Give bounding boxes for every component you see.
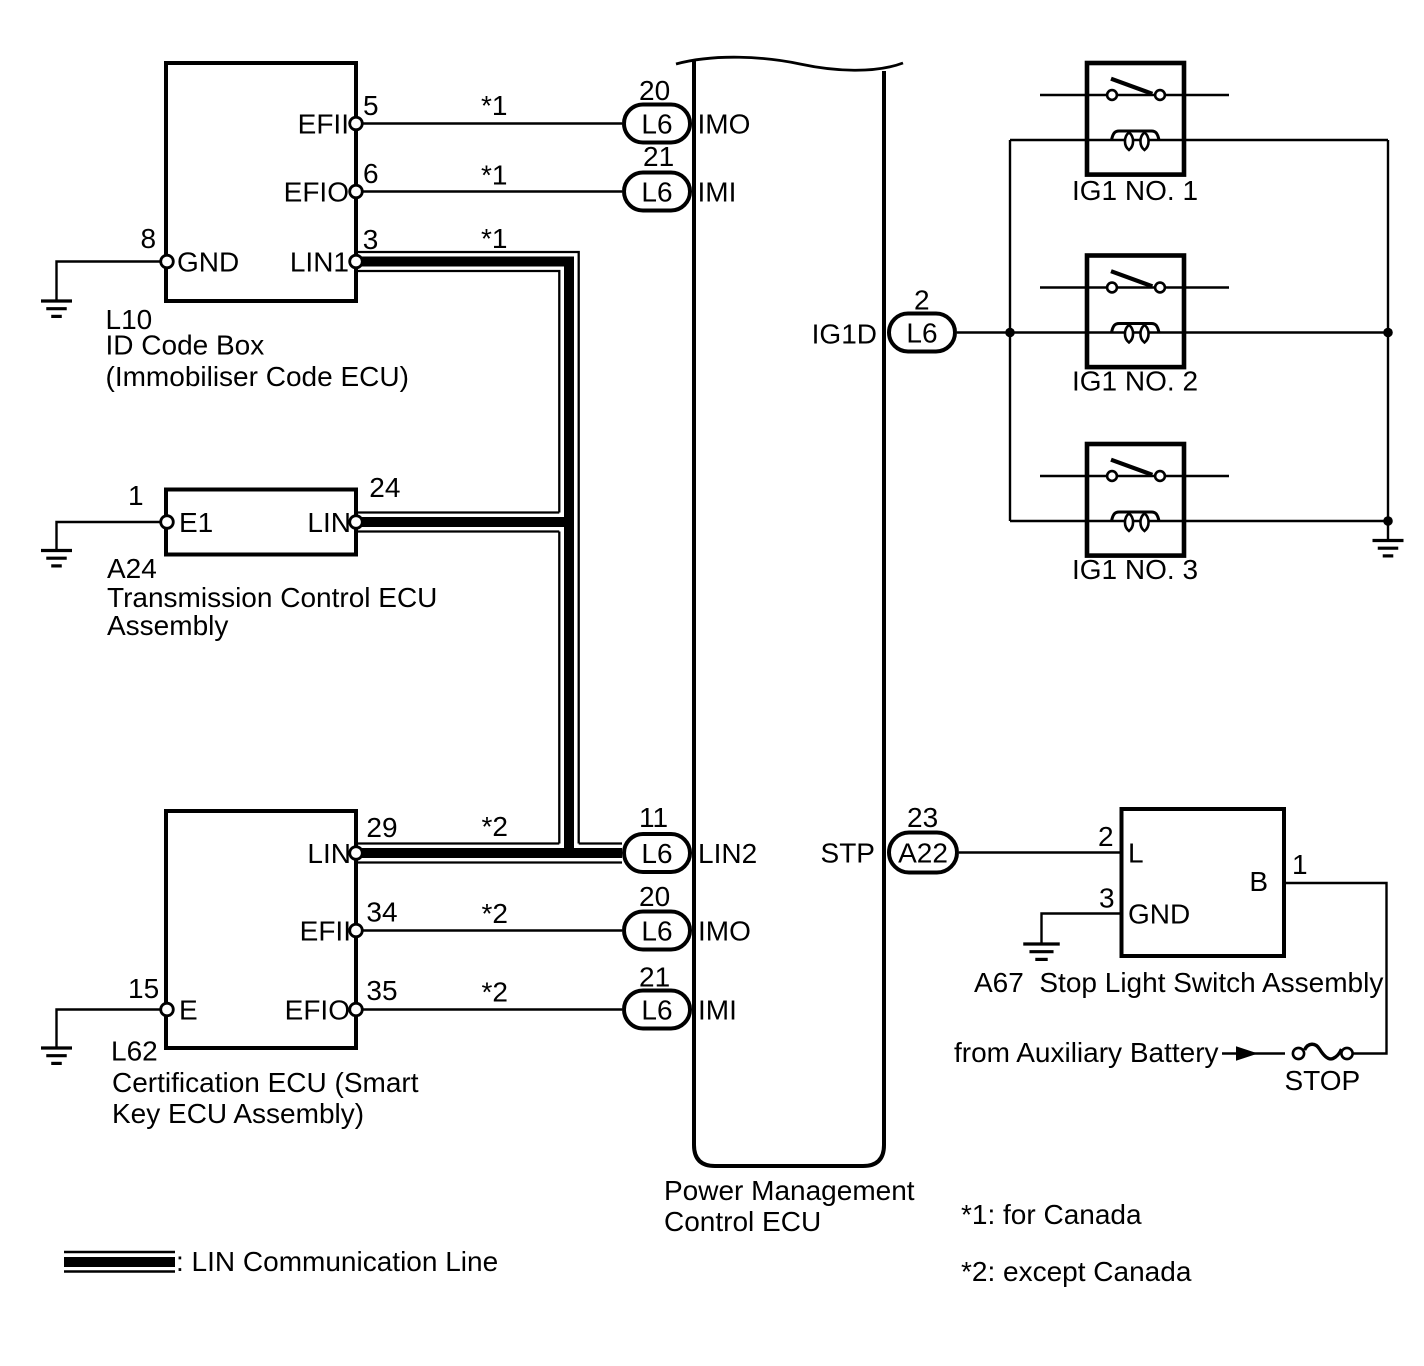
svg-text:2: 2 (1098, 821, 1114, 852)
svg-text:2: 2 (914, 285, 930, 316)
svg-text:IMI: IMI (698, 177, 737, 208)
svg-text:ID Code Box: ID Code Box (106, 330, 265, 361)
svg-text:*1: *1 (481, 90, 507, 121)
svg-text:LIN2: LIN2 (698, 838, 757, 869)
svg-text:IMO: IMO (698, 916, 751, 947)
svg-text:*1: *1 (481, 223, 507, 254)
svg-text:STP: STP (821, 838, 875, 869)
svg-text:A22: A22 (898, 838, 948, 869)
svg-text:3: 3 (363, 224, 379, 255)
svg-text:GND: GND (177, 247, 239, 278)
svg-text:*2: *2 (482, 977, 508, 1008)
svg-text:from Auxiliary Battery: from Auxiliary Battery (954, 1037, 1219, 1068)
svg-text:L6: L6 (641, 916, 672, 947)
svg-text:(Immobiliser Code ECU): (Immobiliser Code ECU) (106, 361, 409, 392)
svg-text:20: 20 (639, 75, 670, 106)
svg-text:21: 21 (643, 141, 674, 172)
svg-text:IG1D: IG1D (812, 319, 877, 350)
svg-text:IG1 NO. 1: IG1 NO. 1 (1072, 175, 1198, 206)
svg-text:Power Management: Power Management (664, 1175, 915, 1206)
svg-text:23: 23 (907, 802, 938, 833)
svg-text:GND: GND (1128, 899, 1190, 930)
svg-text:LIN: LIN (307, 838, 351, 869)
svg-text:IMO: IMO (698, 109, 751, 140)
svg-text:LIN1: LIN1 (290, 247, 349, 278)
svg-text:3: 3 (1099, 883, 1115, 914)
svg-text:24: 24 (369, 472, 400, 503)
svg-text:IG1 NO. 2: IG1 NO. 2 (1072, 366, 1198, 397)
svg-text:STOP: STOP (1285, 1065, 1361, 1096)
svg-text:L: L (1128, 838, 1144, 869)
svg-text:EFIO: EFIO (284, 177, 349, 208)
svg-text:11: 11 (639, 802, 668, 833)
svg-text:Control ECU: Control ECU (664, 1206, 821, 1237)
svg-text:IG1 NO. 3: IG1 NO. 3 (1072, 554, 1198, 585)
svg-text:: LIN Communication Line: : LIN Communication Line (176, 1246, 498, 1277)
svg-text:B: B (1249, 866, 1268, 897)
svg-text:L62: L62 (111, 1036, 158, 1067)
svg-text:A24: A24 (107, 553, 157, 584)
svg-text:E1: E1 (179, 507, 213, 538)
svg-text:*2: *2 (482, 898, 508, 929)
svg-text:Transmission Control ECU: Transmission Control ECU (107, 582, 437, 613)
svg-text:5: 5 (363, 90, 379, 121)
svg-text:L6: L6 (641, 177, 672, 208)
svg-text:29: 29 (366, 812, 397, 843)
svg-text:21: 21 (639, 962, 670, 993)
svg-text:L6: L6 (641, 838, 672, 869)
svg-text:Certification ECU (Smart: Certification ECU (Smart (112, 1067, 419, 1098)
svg-text:L6: L6 (906, 318, 937, 349)
svg-text:20: 20 (639, 881, 670, 912)
svg-text:8: 8 (141, 223, 157, 254)
svg-text:*2: *2 (482, 811, 508, 842)
svg-text:34: 34 (366, 897, 397, 928)
svg-text:IMI: IMI (698, 995, 737, 1026)
svg-text:E: E (179, 995, 198, 1026)
svg-text:1: 1 (128, 480, 144, 511)
svg-text:1: 1 (1292, 849, 1308, 880)
svg-text:6: 6 (363, 158, 379, 189)
svg-text:L6: L6 (641, 995, 672, 1026)
svg-text:EFIO: EFIO (285, 995, 350, 1026)
svg-text:35: 35 (366, 975, 397, 1006)
svg-text:Key ECU Assembly): Key ECU Assembly) (112, 1098, 364, 1129)
svg-text:*1: for Canada: *1: for Canada (961, 1199, 1142, 1230)
svg-text:EFII: EFII (298, 109, 349, 140)
svg-text:15: 15 (128, 973, 159, 1004)
svg-text:*1: *1 (481, 160, 507, 191)
svg-text:Assembly: Assembly (107, 610, 228, 641)
svg-text:*2: except Canada: *2: except Canada (961, 1256, 1192, 1287)
svg-text:LIN: LIN (307, 507, 351, 538)
svg-text:EFII: EFII (300, 916, 351, 947)
svg-text:L6: L6 (641, 109, 672, 140)
svg-text:A67 Stop Light Switch Assembl: A67 Stop Light Switch Assembly (974, 967, 1383, 998)
